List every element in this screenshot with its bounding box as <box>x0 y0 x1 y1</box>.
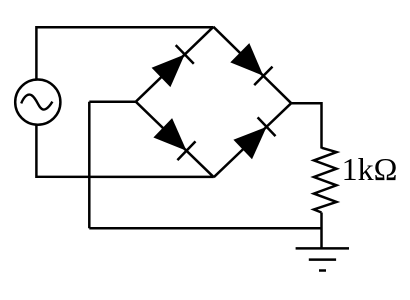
wire bridge right vertex to resistor top <box>291 103 321 148</box>
wire bridge left vertex stub <box>89 100 136 103</box>
diode D4 on B-R side <box>233 117 275 159</box>
resistor R1 <box>314 148 337 213</box>
diode D2 on T-R side <box>230 43 272 85</box>
wire bridge side T-R <box>213 27 291 103</box>
ac source V1 <box>15 80 60 125</box>
svg-text:1kΩ: 1kΩ <box>342 151 398 187</box>
ground <box>296 248 349 270</box>
wire bridge side L-B <box>136 102 214 178</box>
diode D3 on L-B side <box>153 118 195 160</box>
wire source bottom to bridge bottom vertex <box>36 124 213 176</box>
diode D1 on L-T side <box>152 45 194 87</box>
wire top rail from source to bridge top <box>36 27 213 80</box>
wire bottom rail to ground node <box>89 227 321 230</box>
wire resistor bottom to ground <box>320 213 323 249</box>
wire bridge side B-R <box>214 103 291 177</box>
wire bridge side L-T <box>136 27 214 102</box>
wire left vertical drop <box>88 102 91 229</box>
